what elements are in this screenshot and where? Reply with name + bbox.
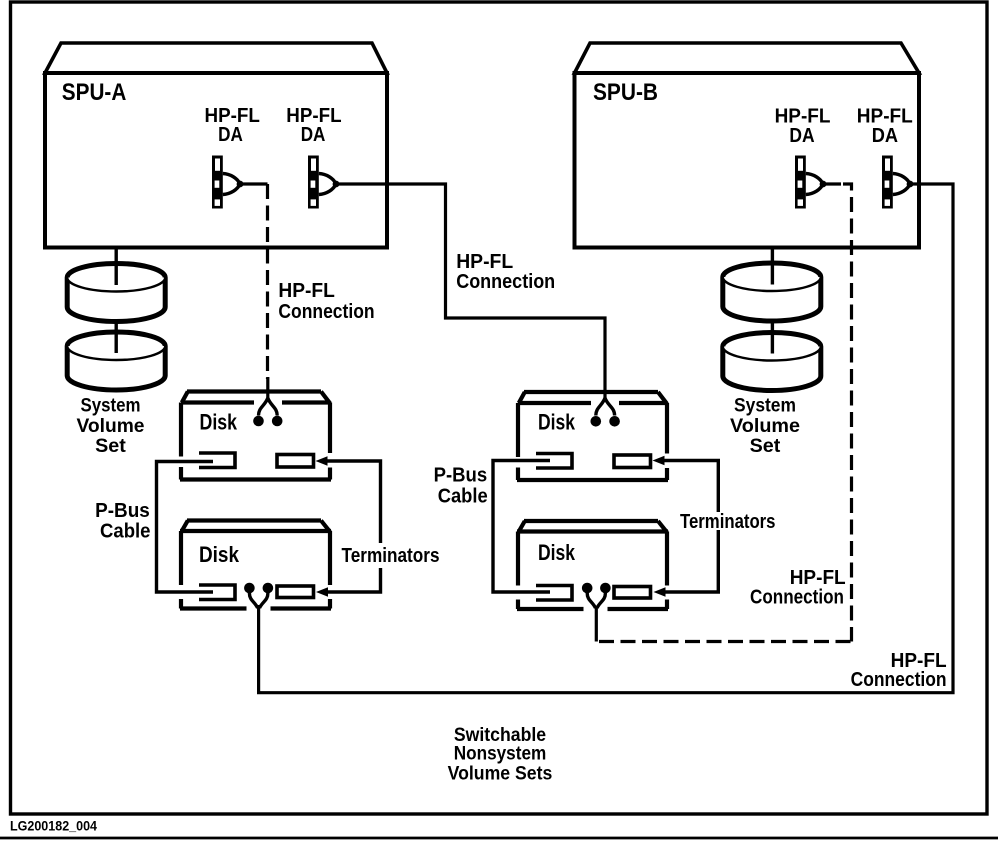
svg-text:Connection: Connection — [278, 301, 374, 323]
svg-text:Set: Set — [95, 435, 126, 457]
svg-text:Disk: Disk — [538, 410, 576, 435]
svg-text:Disk: Disk — [200, 410, 238, 435]
svg-text:SPU-B: SPU-B — [593, 79, 658, 106]
svg-text:HP-FL: HP-FL — [456, 251, 513, 273]
disk box right-bottom — [517, 521, 668, 609]
DA connector B2 — [882, 156, 913, 209]
wire: SPU-B DA1 stub — [823, 182, 841, 185]
svg-text:HP-FL: HP-FL — [278, 280, 335, 302]
wire: solid HP-FL connection SPU-B DA2 to left-bottom disk — [259, 184, 953, 693]
svg-text:P-Bus: P-Bus — [434, 465, 488, 487]
svg-text:System: System — [734, 395, 796, 417]
svg-text:Volume: Volume — [730, 415, 800, 437]
Y cable out of right-bottom disk — [582, 583, 611, 642]
DA connector B1 — [795, 156, 826, 209]
svg-text:Disk: Disk — [538, 540, 576, 565]
svg-text:P-Bus: P-Bus — [95, 500, 150, 522]
system volume set right: cylinders — [723, 263, 821, 321]
svg-text:LG200182_004: LG200182_004 — [10, 819, 97, 834]
Y cable into left-top disk — [253, 377, 282, 426]
spindle lines left — [114, 248, 117, 354]
svg-text:Terminators: Terminators — [680, 511, 776, 533]
arrowhead right-top box — [653, 456, 665, 465]
svg-text:Cable: Cable — [100, 521, 151, 543]
disk box right-top — [517, 392, 668, 480]
arrowhead left-top box — [316, 456, 328, 465]
system volume set left: cylinders — [67, 264, 165, 322]
svg-text:DA: DA — [218, 124, 243, 146]
bottom page rule — [0, 837, 998, 840]
svg-text:DA: DA — [789, 125, 814, 147]
svg-text:Connection: Connection — [851, 669, 947, 691]
arrowhead left-bottom box — [316, 587, 328, 596]
terminator lines, left stack (right side) — [327, 461, 381, 592]
SPU-B box — [575, 43, 920, 248]
svg-text:DA: DA — [872, 125, 898, 147]
svg-text:SPU-A: SPU-A — [62, 79, 127, 106]
svg-text:Cable: Cable — [438, 485, 488, 507]
svg-text:Volume: Volume — [77, 415, 145, 437]
svg-text:Connection: Connection — [456, 271, 555, 293]
wire: dashed HP-FL connection SPU-B DA1 to right-bottom disk — [843, 184, 852, 642]
svg-text:Nonsystem: Nonsystem — [454, 743, 547, 765]
P-Bus cable loop, right stack — [493, 461, 550, 593]
wire: dashed HP-FL connection SPU-A DA1 down to left-top disk — [266, 184, 269, 379]
svg-text:DA: DA — [301, 124, 326, 146]
Y cable into right-top disk — [591, 398, 620, 427]
terminator lines, right stack (right side) — [664, 461, 718, 593]
svg-text:Volume Sets: Volume Sets — [448, 762, 553, 784]
DA connector A1 — [212, 156, 243, 209]
spindle lines right — [771, 248, 774, 354]
P-Bus cable loop, left stack — [157, 462, 214, 593]
svg-text:Terminators: Terminators — [342, 545, 440, 567]
SPU-A box — [45, 43, 387, 248]
Y cable out of left-bottom disk — [244, 583, 273, 608]
DA connector A2 — [308, 156, 339, 209]
svg-text:System: System — [81, 395, 141, 417]
svg-text:Disk: Disk — [199, 542, 240, 567]
wire: solid HP-FL connection SPU-A DA2 to right-top disk — [336, 184, 605, 400]
disk box left-top — [180, 392, 331, 480]
disk box left-bottom — [180, 521, 331, 609]
arrowhead right-bottom box — [654, 587, 666, 596]
svg-text:Set: Set — [750, 435, 781, 457]
wire: SPU-A DA1 stub — [240, 182, 268, 185]
svg-text:Connection: Connection — [750, 587, 844, 609]
